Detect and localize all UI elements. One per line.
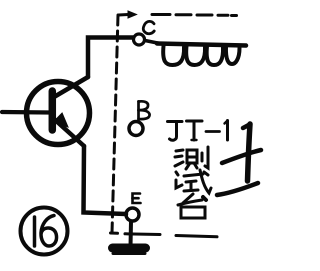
label C (143, 21, 154, 33)
label 测 (drawn strokes) (175, 147, 208, 169)
wire C to coil (145, 41, 160, 44)
dashed box top edge (119, 15, 237, 16)
dashed box left edge (112, 15, 118, 233)
label E (133, 194, 141, 204)
terminal E (126, 208, 139, 221)
figure number 16 (circled) (21, 208, 68, 255)
arrow on top edge (128, 11, 137, 18)
label B (139, 101, 150, 119)
wire E to ground (129, 222, 134, 248)
coil L1 (winding) (157, 44, 246, 66)
wire emitter to E terminal (84, 146, 127, 214)
terminal C (134, 34, 145, 45)
terminal B (129, 122, 143, 136)
transistor Q1 (27, 77, 90, 146)
handwritten mark (annotation) (217, 124, 261, 195)
label 台 (drawn strokes) (178, 194, 206, 218)
wire base lead (2, 110, 50, 115)
wire collector to C terminal (88, 38, 133, 78)
label 试 (drawn strokes) (176, 170, 211, 193)
ground (113, 248, 146, 254)
label JT-1 (168, 121, 228, 141)
dashed box bottom edge (111, 233, 218, 237)
